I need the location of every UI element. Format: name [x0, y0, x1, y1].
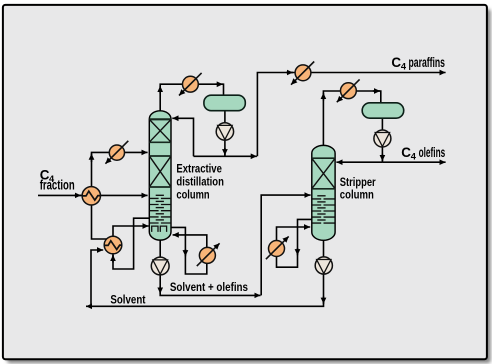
column C1 bottom seal pans: [152, 226, 167, 232]
reboiler E8 (stripper C2): [266, 236, 289, 259]
cooler E5 (C4 paraffins product cooler): [291, 62, 314, 85]
wire: tee header below pump P1: [194, 155, 257, 157]
wire: solvent riser into exchanger E2: [91, 250, 103, 306]
wire: arrow before cooler E5: [286, 72, 293, 74]
wire: C1 reboiler loop through E7: [171, 227, 207, 274]
wire: up arrow into E2 bottom: [112, 255, 114, 263]
wire: C2 bottoms through pump P4 to solvent return line: [86, 240, 324, 306]
wire: stripper reflux branch: [336, 161, 382, 163]
pump P4 (C2 bottoms pump): [315, 257, 332, 274]
svg-text:column: column: [340, 188, 374, 202]
column C1 tray dashes: [150, 195, 171, 223]
wire: E2 top return into column C1: [113, 226, 149, 237]
wire: column C1 overhead to condenser E4 and drum D1: [160, 84, 223, 111]
wire: arrow into drum D2 corner: [373, 90, 380, 92]
pump P3 (C1 bottoms pump): [151, 257, 169, 275]
pump P1 (C1 reflux pump): [216, 123, 233, 140]
column C2 neck line: [312, 157, 335, 159]
wire: stripper C2 overhead to condenser E6 and drum D2: [323, 91, 380, 145]
wire: C2 reboiler loop through E8: [277, 219, 312, 267]
svg-text:fraction: fraction: [40, 178, 75, 193]
svg-text:distillation: distillation: [176, 175, 224, 189]
column C1 packing section 1: [149, 120, 171, 142]
heat exchanger E2 (solvent cooler/interchanger): [104, 236, 122, 254]
wire: drum D2 to pump P2 to tee: [381, 118, 383, 162]
column C2 packing section: [312, 159, 335, 189]
svg-text:Solvent + olefins: Solvent + olefins: [170, 280, 248, 294]
wire: drum D1 to pump P1 to tee: [224, 110, 226, 156]
wire: down arrow after pump P2: [381, 154, 383, 161]
wire: lean solvent line from E2 through E1 and E3 into top of column C1: [92, 152, 148, 239]
wire: up arrow on solvent riser: [91, 154, 93, 162]
wire: down arrow on reboiler downcomer: [184, 249, 186, 256]
wire: C4 paraffins product line through cooler E5: [257, 73, 445, 157]
wire: down arrow after pump P4: [323, 297, 325, 304]
extractive distillation column C1 shell: [149, 111, 171, 240]
svg-text:4: 4: [411, 152, 417, 162]
wire: C1 pumparound draw-off to E2 bottom: [113, 218, 149, 269]
stripper column C2 shell: [312, 145, 335, 240]
wire: feed arrow before exchanger E1: [74, 194, 81, 196]
column C1 packing section 2: [149, 156, 171, 187]
wire: C4 feed line into column C1: [38, 194, 148, 196]
svg-text:Extractive: Extractive: [176, 161, 222, 175]
wire: reflux branch into column C1 top right: [172, 118, 193, 156]
svg-text:paraffins: paraffins: [409, 55, 446, 70]
heat exchanger E1 (feed/solvent interchanger): [82, 187, 100, 205]
reflux drum D2: [362, 103, 404, 118]
column C2 tray dashes: [312, 196, 334, 223]
condenser E4 (column C1 overhead): [179, 73, 202, 96]
wire: down arrow after pump P3: [159, 286, 161, 294]
condenser E6 (stripper overhead): [337, 79, 360, 102]
wire: down arrow on C2 reboiler downcomer: [297, 248, 299, 255]
svg-text:column: column: [176, 188, 209, 202]
column C1 neck line: [149, 118, 171, 120]
pump P2 (C2 reflux pump): [374, 130, 391, 147]
wire: rich solvent riser into stripper C2: [261, 195, 310, 295]
cooler E3 (solvent trim cooler): [105, 141, 128, 164]
svg-text:4: 4: [401, 62, 407, 72]
svg-text:C: C: [401, 145, 411, 160]
svg-text:olefins: olefins: [419, 145, 446, 160]
reflux drum D1: [204, 95, 245, 111]
reboiler E7 (column C1): [197, 243, 220, 266]
wire: arrow into drum D1 corner: [216, 83, 223, 85]
wire: C1 bottoms through pump P3, solvent + olefins line: [160, 240, 260, 295]
wire: up arrow on C2 overhead riser: [322, 93, 324, 101]
svg-text:C: C: [391, 55, 401, 70]
wire: up arrow on C1 overhead riser: [159, 86, 161, 94]
wire: down arrow after pump P1: [224, 148, 226, 155]
wire: C4 olefins product line: [382, 161, 445, 163]
svg-text:Solvent: Solvent: [110, 292, 145, 306]
